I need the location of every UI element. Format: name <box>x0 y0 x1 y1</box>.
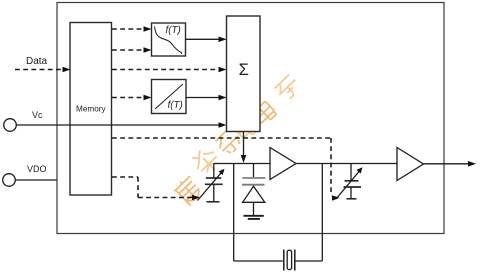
svg-text:Memory: Memory <box>76 105 106 114</box>
svg-text:Vc: Vc <box>32 110 43 120</box>
svg-text:VDO: VDO <box>27 164 47 174</box>
svg-text:Σ: Σ <box>239 61 249 79</box>
svg-text:f(T): f(T) <box>168 100 183 111</box>
svg-text:Data: Data <box>26 56 48 67</box>
svg-text:f(T): f(T) <box>166 25 181 36</box>
